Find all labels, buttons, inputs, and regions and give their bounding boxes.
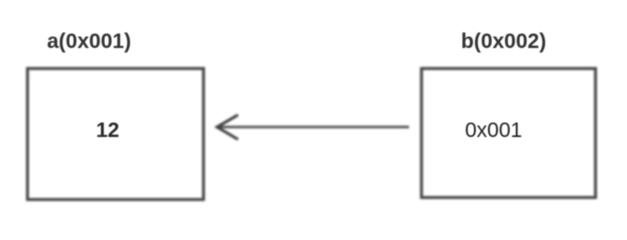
variable box a	[26, 67, 205, 201]
value 0x001	[465, 120, 522, 141]
variable box b	[420, 67, 597, 199]
label a(0x001)	[47, 31, 131, 52]
arrowhead	[217, 116, 237, 139]
wire: arrow shaft	[219, 126, 409, 128]
value 12	[96, 120, 119, 141]
label b(0x002)	[461, 31, 546, 52]
